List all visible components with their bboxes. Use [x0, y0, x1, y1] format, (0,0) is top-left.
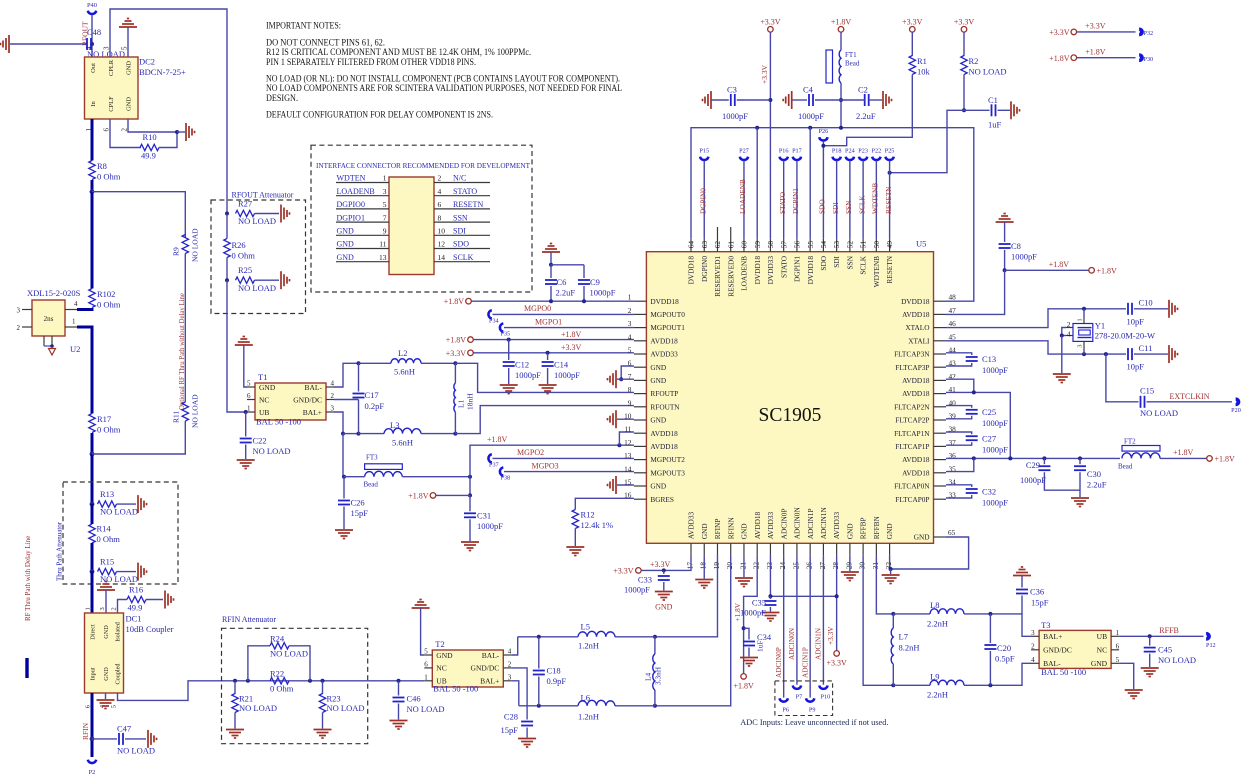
- wire +3.3V to SC1905 AVDD33 pin 5: [473, 352, 634, 354]
- svg-text:1: 1: [247, 405, 251, 413]
- capacitor C26: [343, 477, 345, 499]
- svg-text:2: 2: [508, 660, 512, 668]
- svg-text:BAL 50 -100: BAL 50 -100: [256, 417, 301, 427]
- svg-text:+1.8V: +1.8V: [408, 491, 429, 500]
- power flag +3.3V below pin 28: [834, 651, 840, 657]
- node C20 top: [988, 612, 992, 616]
- svg-text:LOADENB: LOADENB: [740, 256, 749, 291]
- ground for R15: [137, 563, 139, 581]
- wire P15 to SC1905 pin 63: [703, 161, 705, 239]
- wire P27 to SC1905 pin 60: [743, 161, 745, 239]
- svg-text:RFOUTN: RFOUTN: [650, 402, 680, 411]
- resistor R8: [89, 161, 95, 180]
- svg-text:0 Ohm: 0 Ohm: [270, 684, 294, 694]
- svg-text:0 Ohm: 0 Ohm: [97, 534, 121, 544]
- wire +1.8V to SC1905 AVDD18 pin 4: [473, 339, 634, 341]
- resistor R22: [270, 678, 289, 684]
- svg-text:18nH: 18nH: [466, 393, 475, 410]
- ground for R25: [280, 271, 282, 289]
- svg-text:C9: C9: [590, 277, 600, 287]
- svg-text:NO LOAD COMPONENTS ARE FOR SCI: NO LOAD COMPONENTS ARE FOR SCINTERA VALI…: [266, 83, 622, 93]
- svg-text:PIN 1 SEPARATELY FILTERED FROM: PIN 1 SEPARATELY FILTERED FROM OTHER VDD…: [266, 57, 476, 67]
- svg-text:FLTCAP2N: FLTCAP2N: [894, 402, 930, 411]
- svg-text:60: 60: [740, 241, 749, 249]
- node C46 tap: [397, 679, 401, 683]
- svg-text:+3.3V: +3.3V: [826, 626, 835, 645]
- svg-text:L3: L3: [390, 420, 399, 430]
- svg-text:ADCIN0P: ADCIN0P: [774, 647, 783, 678]
- wire RFFBN pin 31 down to L8 row: [876, 555, 893, 614]
- wire R13 node to R14: [91, 504, 94, 524]
- balun T2: [432, 650, 503, 687]
- svg-text:C47: C47: [117, 724, 131, 734]
- svg-text:NO LOAD: NO LOAD: [1140, 408, 1178, 418]
- interface connector pin 5 DGPIO0: [336, 208, 389, 210]
- svg-text:R11: R11: [172, 411, 181, 423]
- svg-text:2.2uF: 2.2uF: [556, 288, 576, 298]
- svg-text:AVDD33: AVDD33: [766, 512, 775, 540]
- svg-text:15pF: 15pF: [351, 508, 369, 518]
- ground under DC1: [97, 699, 115, 701]
- svg-text:3.3nH: 3.3nH: [654, 666, 663, 685]
- ferrite bead FT3: [365, 464, 403, 470]
- svg-text:C20: C20: [997, 643, 1011, 653]
- svg-text:R2: R2: [969, 56, 979, 66]
- svg-text:C4: C4: [803, 85, 814, 95]
- wire attenuator output down to T1 UB: [227, 280, 247, 412]
- svg-text:6: 6: [1116, 642, 1120, 650]
- wire R25 to ground: [255, 279, 280, 281]
- svg-text:1: 1: [72, 318, 76, 326]
- svg-text:Input: Input: [90, 667, 97, 680]
- svg-text:R1: R1: [917, 56, 927, 66]
- svg-text:0.9pF: 0.9pF: [547, 676, 567, 686]
- dashed box ADC inputs: [775, 681, 833, 716]
- svg-text:NO LOAD: NO LOAD: [100, 574, 138, 584]
- svg-text:R13: R13: [100, 489, 114, 499]
- svg-text:3: 3: [1077, 345, 1084, 348]
- svg-text:DVDD18: DVDD18: [901, 297, 930, 306]
- wire AVDD33 pin 23 to C35 and pin 28: [770, 555, 836, 596]
- node SDO junction: [821, 144, 825, 148]
- capacitor C8: [999, 243, 1011, 245]
- svg-text:ADCIN1N: ADCIN1N: [814, 627, 823, 660]
- wire R1 to SDO net: [823, 75, 912, 146]
- svg-text:XTALO: XTALO: [905, 323, 929, 332]
- svg-text:GND: GND: [259, 383, 276, 392]
- resistor R27: [236, 210, 255, 216]
- svg-text:C48: C48: [87, 27, 101, 37]
- wire R26 to R25 node: [226, 258, 228, 281]
- node C6 on pin1 net: [549, 299, 553, 303]
- svg-text:Bead: Bead: [1118, 463, 1133, 471]
- svg-text:SCLK: SCLK: [453, 253, 474, 262]
- svg-text:GND: GND: [914, 533, 930, 542]
- interface connector pin 1 WDTEN: [336, 182, 389, 184]
- svg-text:UB: UB: [1097, 632, 1107, 641]
- wire T1 BAL+ down to L3 row: [334, 412, 343, 434]
- svg-text:SDO: SDO: [453, 240, 469, 249]
- wire R9 to R11: [184, 254, 186, 403]
- ground at pin 18: [695, 579, 713, 581]
- svg-text:ADCIN1P: ADCIN1P: [806, 508, 815, 539]
- svg-text:AVDD33: AVDD33: [687, 512, 696, 540]
- svg-text:NC: NC: [1097, 646, 1107, 655]
- svg-text:T3: T3: [1041, 620, 1050, 630]
- wire ADCIN1N pin 27 to P10: [822, 555, 824, 685]
- svg-text:BAL-: BAL-: [305, 383, 323, 392]
- svg-text:SDI: SDI: [831, 202, 840, 214]
- node C34 tap: [742, 626, 746, 630]
- capacitor C1: [964, 109, 990, 111]
- svg-text:AVDD18: AVDD18: [902, 455, 930, 464]
- capacitor C46: [398, 681, 400, 696]
- svg-text:ADCIN1P: ADCIN1P: [800, 647, 809, 678]
- wire P16 to SC1905 pin 57: [783, 161, 785, 239]
- svg-text:DVDD18: DVDD18: [806, 256, 815, 285]
- svg-text:Thru Path Attenuator: Thru Path Attenuator: [56, 521, 64, 581]
- svg-text:DVDD33: DVDD33: [766, 256, 775, 285]
- svg-text:62: 62: [713, 241, 722, 249]
- svg-text:FLTCAP1P: FLTCAP1P: [895, 442, 929, 451]
- svg-text:BAL 50 -100: BAL 50 -100: [1041, 667, 1086, 677]
- wire GND pin 21 to ground: [743, 555, 745, 577]
- wire DC2 GND pin2 to ground node: [128, 119, 177, 132]
- svg-text:2: 2: [17, 324, 21, 332]
- svg-text:P25: P25: [885, 148, 895, 155]
- svg-text:AVDD18: AVDD18: [753, 512, 762, 540]
- svg-text:C35: C35: [752, 598, 766, 608]
- svg-text:Direct: Direct: [90, 624, 97, 640]
- svg-text:5: 5: [383, 200, 387, 209]
- svg-text:16: 16: [624, 491, 632, 500]
- svg-text:GND: GND: [103, 667, 110, 681]
- node C14 tap: [546, 351, 550, 355]
- wire GND pin 32 to ground: [889, 555, 891, 569]
- svg-text:5.6nH: 5.6nH: [392, 438, 413, 448]
- svg-text:GND: GND: [740, 523, 749, 539]
- wire P18 to SC1905 pin 53: [836, 161, 838, 239]
- T1 pin stubs and numbers: [247, 386, 255, 388]
- svg-text:C25: C25: [982, 407, 996, 417]
- wire T1 BAL- up to L2 row: [334, 363, 359, 387]
- wire DC1 Coupled output to RFIN attenuator: [118, 681, 236, 701]
- svg-text:RFINN: RFINN: [726, 517, 735, 540]
- ground for C2: [882, 91, 884, 109]
- svg-text:4: 4: [1067, 330, 1071, 339]
- svg-text:31: 31: [871, 562, 880, 570]
- svg-text:49.9: 49.9: [141, 151, 156, 161]
- svg-text:0 Ohm: 0 Ohm: [97, 300, 121, 310]
- ground for C35: [761, 612, 779, 614]
- svg-text:BAL+: BAL+: [303, 408, 322, 417]
- svg-text:C45: C45: [1158, 645, 1172, 655]
- wire P17 to SC1905 pin 56: [796, 161, 798, 239]
- wire SC1905 GND pin 15 to ground: [617, 484, 634, 486]
- interface connector pin 2 N/C: [434, 182, 490, 184]
- svg-text:R23: R23: [327, 694, 341, 704]
- wire L8 to T3 BAL+: [964, 614, 1031, 636]
- svg-text:C36: C36: [1030, 587, 1044, 597]
- svg-text:R10: R10: [143, 132, 157, 142]
- svg-text:DVDD18: DVDD18: [753, 256, 762, 285]
- ground for C28: [518, 738, 536, 740]
- wire T3 UB to P12 RFFB: [1119, 635, 1203, 637]
- svg-text:FLTCAP0N: FLTCAP0N: [894, 482, 930, 491]
- ground for C12: [500, 384, 518, 386]
- node R27 tap: [225, 212, 229, 216]
- node C6/C9 gnd tie: [549, 263, 553, 267]
- svg-text:1000pF: 1000pF: [624, 585, 650, 595]
- svg-text:3: 3: [508, 673, 512, 681]
- Y1 pin stubs: [1083, 317, 1085, 324]
- wire U2 pin1 down to R17: [77, 327, 92, 414]
- svg-text:SDI: SDI: [832, 255, 841, 267]
- node L4 bottom: [653, 704, 657, 708]
- svg-text:NC: NC: [259, 395, 269, 404]
- node U2 ground: [50, 344, 54, 348]
- wire +3.3V to P32: [1077, 31, 1136, 33]
- svg-text:C12: C12: [515, 360, 529, 370]
- capacitor C6: [550, 265, 552, 278]
- resistor R25: [236, 277, 255, 283]
- svg-text:DGPIN1: DGPIN1: [791, 188, 800, 214]
- svg-text:2: 2: [628, 306, 632, 315]
- svg-text:WDTEN: WDTEN: [337, 174, 366, 183]
- svg-text:+3.3V: +3.3V: [1049, 28, 1070, 37]
- svg-text:P32: P32: [1144, 30, 1154, 37]
- svg-text:4: 4: [1031, 656, 1035, 664]
- svg-text:10: 10: [624, 412, 632, 421]
- svg-text:5: 5: [424, 648, 428, 656]
- ground for C46: [390, 720, 408, 722]
- svg-text:C3: C3: [727, 85, 737, 95]
- svg-text:8.2nH: 8.2nH: [899, 643, 920, 653]
- svg-text:4: 4: [438, 187, 442, 196]
- capacitor C48: [86, 38, 88, 50]
- inductor L1 vertical: [454, 363, 456, 383]
- svg-text:BAL 50 -100: BAL 50 -100: [433, 684, 478, 694]
- capacitor C32 between FLTCAP0N/0P: [946, 485, 972, 487]
- connector P35 on MGPOUT1: [504, 327, 634, 329]
- node RF path / bypass branch: [90, 189, 95, 194]
- resistor R13: [98, 501, 117, 507]
- inductor L8: [893, 613, 930, 615]
- ground for T3: [1125, 689, 1143, 691]
- inductor L4 vertical: [654, 637, 656, 654]
- svg-text:P12: P12: [1206, 642, 1216, 649]
- node pin11/pin12 tie: [617, 443, 621, 447]
- svg-text:GND: GND: [700, 523, 709, 539]
- svg-text:NO LOAD (OR NL): DO NOT INSTAL: NO LOAD (OR NL): DO NOT INSTALL COMPONEN…: [266, 74, 620, 84]
- svg-text:NO LOAD: NO LOAD: [407, 704, 445, 714]
- wire to SC1905 RFOUTP pin 8: [455, 363, 634, 392]
- svg-text:AVDD33: AVDD33: [650, 350, 678, 359]
- svg-text:25: 25: [791, 562, 800, 570]
- svg-text:21: 21: [738, 562, 747, 570]
- wire RFIN path DC1 to P2: [91, 693, 94, 757]
- svg-text:AVDD18: AVDD18: [902, 468, 930, 477]
- svg-text:BAL+: BAL+: [1043, 632, 1062, 641]
- inductor L2: [391, 359, 421, 364]
- svg-text:1000pF: 1000pF: [1020, 475, 1046, 485]
- svg-text:R25: R25: [238, 265, 252, 275]
- ground for C33: [655, 591, 673, 593]
- svg-text:GND/DC: GND/DC: [1043, 646, 1072, 655]
- svg-text:56: 56: [793, 241, 802, 249]
- svg-text:45: 45: [949, 332, 957, 341]
- svg-text:DGPIN1: DGPIN1: [793, 256, 802, 282]
- svg-text:+1.8V: +1.8V: [1173, 448, 1194, 457]
- capacitor C15: [1140, 396, 1142, 408]
- svg-text:MGPOUT1: MGPOUT1: [650, 323, 685, 332]
- crystal Y1 body: [1073, 324, 1093, 342]
- capacitor C47: [92, 738, 117, 740]
- svg-text:1: 1: [383, 174, 387, 183]
- interface connector pin 13 GND: [336, 261, 389, 263]
- node L7 top: [891, 612, 895, 616]
- svg-text:MGPOUT2: MGPOUT2: [650, 455, 685, 464]
- wire L3 to L1 bottom: [421, 433, 455, 435]
- svg-text:5.6nH: 5.6nH: [394, 367, 415, 377]
- ground for R21: [226, 729, 244, 731]
- svg-text:3: 3: [331, 405, 335, 413]
- svg-text:P20: P20: [1231, 407, 1241, 414]
- T2 pin stubs and numbers: [424, 654, 432, 656]
- svg-text:C6: C6: [557, 277, 567, 287]
- svg-text:NO LOAD: NO LOAD: [117, 746, 155, 756]
- svg-text:R12 IS CRITICAL COMPONENT AND: R12 IS CRITICAL COMPONENT AND MUST BE 12…: [266, 47, 531, 57]
- interface connector pin 6 RESETN: [434, 208, 490, 210]
- svg-text:1uF: 1uF: [988, 120, 1002, 130]
- connector P2: [88, 760, 96, 763]
- svg-text:3: 3: [628, 319, 632, 328]
- svg-text:12: 12: [438, 240, 446, 249]
- balun T3: [1039, 630, 1111, 668]
- connector P12: [1207, 632, 1211, 640]
- svg-text:C14: C14: [554, 360, 569, 370]
- svg-text:1000pF: 1000pF: [740, 608, 766, 618]
- svg-text:26: 26: [805, 562, 814, 570]
- svg-text:C10: C10: [1139, 298, 1153, 308]
- svg-text:STATO: STATO: [453, 187, 477, 196]
- svg-text:C29: C29: [1026, 460, 1040, 470]
- svg-text:0.2pF: 0.2pF: [365, 401, 385, 411]
- wire C10 to ground: [1134, 308, 1168, 310]
- svg-text:0 Ohm: 0 Ohm: [97, 172, 121, 182]
- wire R10 to ground node: [159, 132, 177, 148]
- wire DC2 CPLR to RFOUT attenuator: [110, 9, 227, 214]
- node C17 top: [357, 361, 361, 365]
- resistor R11: [182, 402, 188, 421]
- svg-text:GND: GND: [655, 603, 673, 612]
- node L1 bottom: [453, 432, 457, 436]
- wire to SC1905 RFOUTN pin 9: [455, 406, 634, 434]
- svg-text:SSN: SSN: [453, 213, 468, 222]
- ground at pin 7: [615, 370, 617, 388]
- wire attenuator to DC1: [91, 572, 94, 613]
- node bus to pin 55: [808, 126, 812, 130]
- inverted ground above DC1 pin 3: [97, 589, 115, 591]
- node C9 on pin1 net: [582, 299, 586, 303]
- capacitor C34: [744, 628, 749, 639]
- ground for R23: [314, 729, 332, 731]
- svg-text:SSN: SSN: [845, 255, 854, 269]
- svg-text:C46: C46: [407, 694, 421, 704]
- resistor R23 shunt: [322, 681, 324, 694]
- svg-text:P10: P10: [821, 694, 831, 701]
- ground at pin 15: [615, 476, 617, 494]
- svg-text:DGPIN0: DGPIN0: [698, 188, 707, 214]
- svg-text:NO LOAD: NO LOAD: [238, 283, 276, 293]
- node C47 tap: [90, 737, 95, 742]
- DVDD18 bus wire at top: [691, 128, 974, 302]
- node R21 tap: [233, 679, 237, 683]
- node C33 tap: [662, 568, 666, 572]
- svg-text:C32: C32: [982, 487, 996, 497]
- wire ADCIN0N pin 25 to P7: [796, 555, 798, 685]
- svg-text:IMPORTANT NOTES:: IMPORTANT NOTES:: [266, 21, 341, 31]
- svg-text:15pF: 15pF: [1031, 598, 1049, 608]
- svg-text:+1.8V: +1.8V: [487, 435, 508, 444]
- wire +3.3V down to SC1905 pin 58: [769, 32, 771, 239]
- svg-text:46: 46: [949, 319, 957, 328]
- directional coupler DC2 BDCN-7-25+: [85, 57, 139, 119]
- svg-text:4: 4: [331, 380, 335, 388]
- svg-text:+1.8V: +1.8V: [1049, 54, 1070, 63]
- svg-text:30: 30: [858, 562, 867, 570]
- wire to L2: [359, 362, 392, 364]
- svg-text:2.2uF: 2.2uF: [1087, 480, 1107, 490]
- svg-text:C2: C2: [858, 85, 868, 95]
- svg-text:GND/DC: GND/DC: [293, 395, 322, 404]
- svg-text:+3.3V: +3.3V: [446, 349, 467, 358]
- svg-text:T1: T1: [258, 372, 267, 382]
- svg-text:FT3: FT3: [366, 454, 378, 462]
- wire R2 node to RESETN: [890, 110, 964, 172]
- node pin32/pin65 gnd tie: [889, 567, 893, 571]
- svg-text:MGPO0: MGPO0: [524, 304, 551, 313]
- power flag +1.8V at C8: [1005, 269, 1089, 271]
- node R25 tap: [225, 278, 229, 282]
- svg-text:ADCIN0P: ADCIN0P: [779, 508, 788, 539]
- U2 pin stubs and numbers: [22, 309, 32, 311]
- svg-text:61: 61: [726, 241, 735, 249]
- svg-text:P38: P38: [501, 475, 511, 482]
- svg-text:GND: GND: [337, 253, 355, 262]
- svg-text:WDTENB: WDTENB: [872, 256, 881, 287]
- svg-text:14: 14: [624, 464, 632, 473]
- ground for C3: [710, 91, 712, 109]
- inductor L5: [615, 636, 655, 638]
- wire L6 to T2 BAL+ node: [519, 705, 578, 707]
- node pin35 riser: [972, 456, 976, 460]
- svg-text:AVDD18: AVDD18: [650, 429, 678, 438]
- node R13 tap: [90, 502, 95, 507]
- svg-text:AVDD33: AVDD33: [832, 512, 841, 540]
- svg-text:1000pF: 1000pF: [982, 365, 1008, 375]
- svg-text:1000pF: 1000pF: [477, 521, 503, 531]
- wire bus to SC1905 pin 59: [756, 128, 758, 239]
- svg-text:57: 57: [779, 241, 788, 249]
- ground for C34: [740, 657, 758, 659]
- SC1905 bottom pins 17-32: [690, 543, 692, 555]
- svg-text:SDI: SDI: [453, 227, 466, 236]
- ground right of R10: [185, 123, 187, 141]
- svg-text:GND: GND: [845, 523, 854, 539]
- svg-text:65: 65: [948, 528, 956, 537]
- connector P7: [793, 686, 801, 689]
